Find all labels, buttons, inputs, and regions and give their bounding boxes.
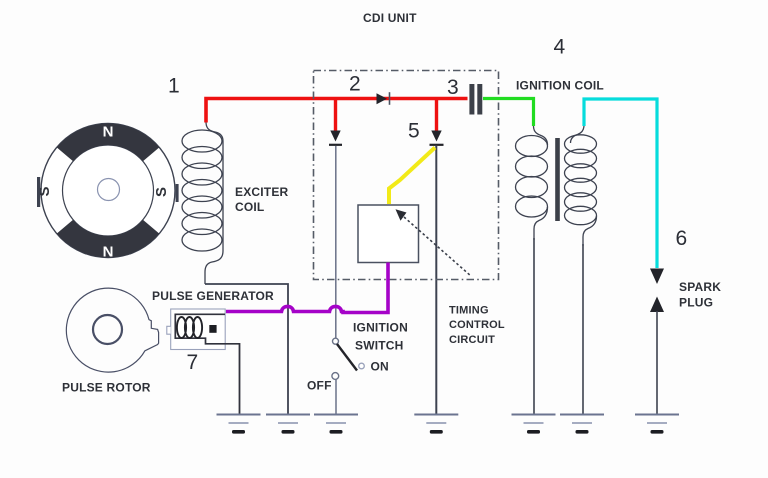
svg-text:IGNITION COIL: IGNITION COIL [516, 79, 604, 93]
ignition coil primary winding [516, 126, 548, 240]
diode arrow SCR node 5 [430, 131, 444, 145]
svg-text:6: 6 [676, 227, 688, 250]
svg-text:PULSE GENERATOR: PULSE GENERATOR [152, 289, 274, 303]
exciter coil [182, 122, 223, 284]
wire secondary to ground [582, 244, 584, 414]
svg-text:1: 1 [168, 75, 180, 98]
timing control circuit box [358, 205, 419, 263]
capacitor C1 [469, 84, 482, 115]
CDI unit dashed box [314, 71, 499, 280]
svg-text:SWITCH: SWITCH [355, 339, 404, 353]
spark plug bottom electrode arrow [650, 297, 664, 313]
green wire capacitor to ignition coil primary [483, 99, 534, 127]
svg-text:COIL: COIL [235, 200, 264, 214]
svg-text:CONTROL: CONTROL [449, 319, 505, 331]
ground ignition coil primary [512, 415, 556, 434]
svg-text:S: S [153, 187, 170, 197]
flywheel left keyway tick [37, 177, 40, 207]
svg-text:3: 3 [447, 76, 459, 99]
wire OFF contact to ground [335, 380, 337, 415]
spark plug top electrode arrow [650, 269, 664, 285]
svg-text:2: 2 [349, 73, 361, 96]
ignition switch contact A [333, 338, 339, 344]
wire SCR cathode to ground [435, 146, 437, 414]
wire pulse generator to ground [239, 343, 241, 414]
flywheel magneto rotor [41, 123, 175, 257]
svg-text:CIRCUIT: CIRCUIT [449, 334, 495, 346]
ground pulse generator [217, 415, 261, 434]
svg-text:TIMING: TIMING [449, 305, 489, 317]
flywheel right keyway tick [176, 184, 179, 202]
ignition coil core [555, 138, 560, 221]
pulse generator box [167, 309, 240, 350]
cyan high tension wire to spark plug [584, 99, 657, 268]
red wire from exciter coil to capacitor [206, 99, 468, 123]
svg-text:7: 7 [187, 351, 199, 374]
svg-text:ON: ON [371, 360, 389, 374]
svg-text:PLUG: PLUG [679, 296, 713, 310]
ignition switch ON contact [359, 363, 365, 369]
svg-text:EXCITER: EXCITER [235, 185, 289, 199]
wire exciter coil to ground [205, 284, 288, 414]
red branch drop at node 5 [435, 99, 438, 132]
pulse generator magnet [209, 325, 216, 333]
red branch drop at node 2 [334, 99, 337, 132]
callout arrow to timing box [396, 209, 472, 276]
svg-text:PULSE ROTOR: PULSE ROTOR [62, 381, 151, 395]
svg-text:5: 5 [408, 120, 420, 143]
ignition switch lever [337, 344, 357, 371]
svg-text:CDI UNIT: CDI UNIT [363, 11, 417, 25]
diode arrow into SCR node 2 [329, 131, 342, 145]
diode D1 on red bus [377, 92, 390, 105]
spark plug body wire to ground [656, 311, 658, 414]
svg-text:SPARK: SPARK [679, 280, 721, 294]
pulse rotor [66, 288, 158, 372]
wire node2 down to ignition switch [335, 146, 337, 338]
purple trigger wire timing box to pulse generator [226, 263, 388, 313]
wire primary to ground [533, 238, 535, 414]
yellow wire SCR gate to timing box [389, 148, 435, 205]
svg-text:OFF: OFF [307, 379, 332, 393]
svg-text:IGNITION: IGNITION [353, 321, 408, 335]
pulse generator coil [177, 317, 202, 338]
ignition switch OFF contact [332, 373, 339, 380]
ignition coil secondary winding [565, 125, 597, 246]
ground SCR [414, 415, 458, 434]
ground ignition switch [314, 415, 358, 434]
ground exciter coil [266, 415, 310, 434]
ground spark plug [635, 415, 679, 434]
ground ignition coil secondary [560, 415, 604, 434]
svg-text:N: N [103, 244, 114, 261]
svg-text:4: 4 [554, 36, 566, 59]
svg-text:N: N [103, 124, 114, 141]
